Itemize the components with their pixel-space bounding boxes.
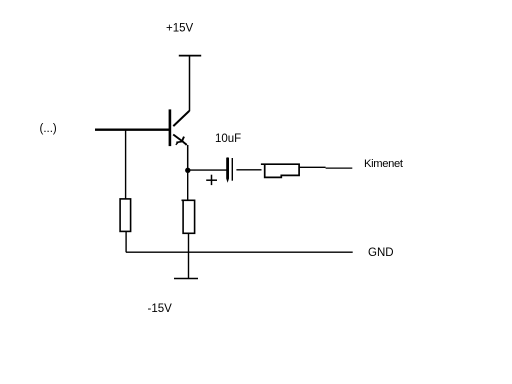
svg-text:Kimenet: Kimenet (364, 158, 404, 170)
wire R1 to ground rail (125, 231, 127, 252)
wire emitter node to C1 (190, 169, 227, 171)
power rail +15V terminal (179, 55, 201, 57)
svg-text:+15V: +15V (166, 23, 194, 35)
wire emitter node to R2 (187, 173, 189, 201)
resistor R2 (182, 200, 195, 233)
node emitter junction (185, 168, 190, 173)
capacitor C1 plate positive (226, 157, 229, 182)
wire base node to R1 (125, 131, 127, 200)
wire collector to +15V (189, 56, 191, 112)
resistor R1 (120, 199, 131, 232)
wire R2 to -15V (188, 233, 190, 278)
resistor R3 (261, 164, 299, 177)
wire C1 to R3 (236, 169, 261, 171)
power rail -15V terminal (174, 278, 198, 280)
capacitor C1 plate negative (231, 158, 233, 181)
svg-text:-15V: -15V (148, 303, 173, 315)
svg-text:10uF: 10uF (215, 133, 241, 145)
transistor Q1 (170, 109, 189, 146)
svg-text:GND: GND (368, 247, 394, 259)
wire R3 to output (299, 166, 352, 169)
wire emitter (187, 145, 189, 170)
svg-text:(...): (...) (40, 123, 57, 135)
wire base input (95, 128, 170, 130)
capacitor C1 polarity + (206, 175, 217, 185)
ground rail wire (126, 251, 353, 253)
